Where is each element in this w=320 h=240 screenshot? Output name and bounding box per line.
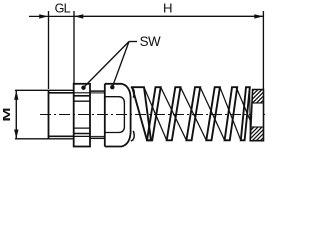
svg-text:GL: GL (55, 2, 71, 16)
svg-text:SW: SW (140, 34, 161, 49)
svg-text:M: M (1, 107, 12, 121)
svg-text:H: H (163, 1, 173, 16)
